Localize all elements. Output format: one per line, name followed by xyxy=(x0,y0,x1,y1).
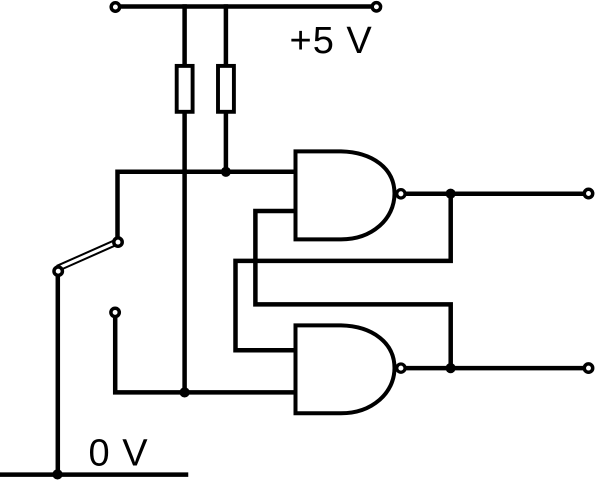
NAND gate U2 body xyxy=(296,325,395,413)
wire gate U1 top input to switch contact A xyxy=(118,172,296,241)
wire 0V rail xyxy=(0,472,186,477)
wire resistor R1 bottom lead down to lower input net xyxy=(182,112,187,392)
NAND gate U2 inversion bubble xyxy=(397,364,405,372)
switch arm (changeover lever from pole to contact A) xyxy=(57,239,119,270)
wire resistor R2 top lead xyxy=(224,7,229,67)
wire switch pole to 0V rail xyxy=(56,271,61,474)
wire gate U2 top input from gate U1 output (feedback) xyxy=(236,194,451,351)
resistor R1 xyxy=(177,66,193,112)
svg-text:+5 V: +5 V xyxy=(290,20,373,62)
wire gate U2 output to terminal Q-bar xyxy=(404,366,589,371)
junction dot on 0V rail xyxy=(52,469,62,479)
resistor R2 xyxy=(218,66,234,112)
NAND gate U1 body xyxy=(296,151,395,239)
terminal output Q xyxy=(584,189,592,197)
svg-text:0 V: 0 V xyxy=(89,433,149,475)
wire gate U1 bottom input from gate U2 output (feedback) xyxy=(255,211,450,368)
terminal +5V left xyxy=(111,3,119,11)
junction dot on gate U1 output xyxy=(446,189,456,199)
switch contact B xyxy=(111,308,119,316)
junction dot on gate U2 output xyxy=(446,363,456,373)
wire gate U1 output to terminal Q xyxy=(404,191,589,196)
terminal output Q-bar xyxy=(584,364,592,372)
wire +5V top rail xyxy=(115,4,377,9)
wire resistor R1 top lead xyxy=(182,7,187,67)
junction dot on R2 net at gate U1 top input wire xyxy=(221,167,231,177)
wire resistor R2 bottom lead xyxy=(224,112,229,172)
terminal +5V right xyxy=(372,3,380,11)
switch contact A xyxy=(114,238,122,246)
wire switch contact B to gate U2 bottom input xyxy=(115,313,295,392)
NAND gate U1 inversion bubble xyxy=(397,190,405,198)
switch pole xyxy=(54,267,62,275)
junction dot on R1 net at gate U2 bottom input wire xyxy=(180,387,190,397)
